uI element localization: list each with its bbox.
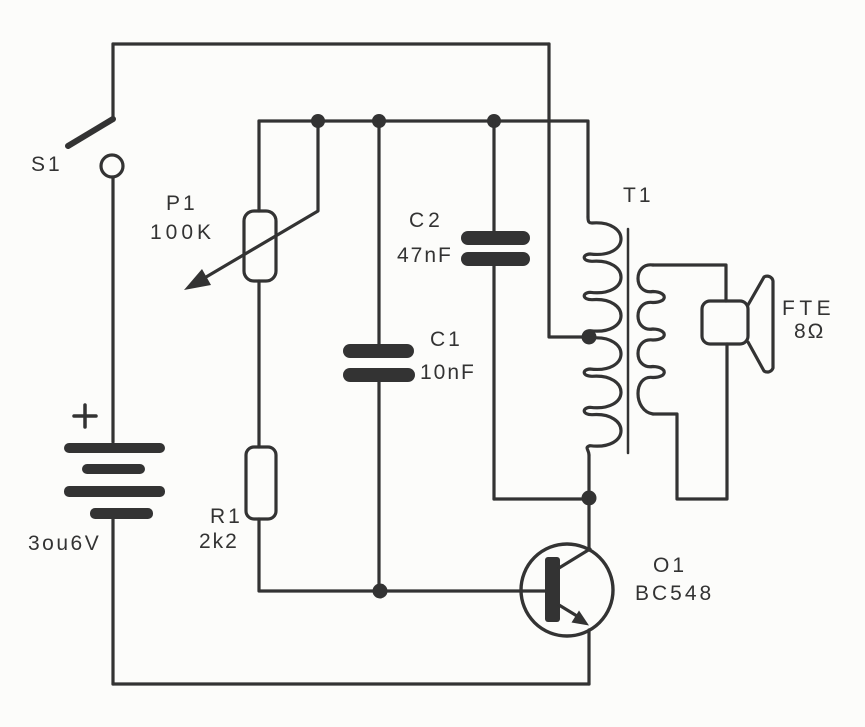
svg-text:BC548: BC548 — [635, 582, 714, 605]
capacitor C2 top lead — [492, 121, 495, 231]
potentiometer P1 wiper lead — [201, 121, 318, 280]
capacitor C1 top lead — [377, 121, 380, 344]
wire S1 to battery — [111, 177, 114, 442]
capacitor C1 bottom lead — [377, 382, 380, 592]
wire secondary bottom return — [653, 344, 727, 499]
capacitor C2 bottom lead — [492, 266, 495, 499]
node dot C2 top junction — [487, 114, 501, 128]
wire C2 to collector node — [494, 497, 589, 500]
transistor Q1 base bar — [545, 557, 560, 622]
potentiometer P1 body — [244, 211, 276, 281]
wire collector to node — [587, 498, 590, 550]
capacitor C2 plate 2 — [461, 252, 530, 266]
wire P1 to R1 — [257, 281, 260, 447]
transformer T1 core — [627, 229, 630, 453]
transistor Q1 collector lead — [559, 549, 590, 568]
node dot primary bottom collector junction — [582, 491, 597, 506]
transformer T1 primary winding — [584, 217, 621, 455]
battery B1 plate 2 short — [82, 464, 145, 474]
wire R1 to base — [259, 519, 545, 591]
svg-text:C1: C1 — [430, 328, 463, 351]
svg-text:T1: T1 — [623, 184, 654, 207]
wire emitter to bottom bus — [587, 630, 590, 684]
transistor Q1 emitter arrowhead — [572, 611, 590, 626]
capacitor C1 plate 1 — [343, 344, 414, 358]
wire battery to bottom bus — [111, 519, 114, 684]
node dot C1 base junction — [373, 584, 388, 599]
capacitor C2 plate 1 — [461, 231, 530, 245]
speaker FTE horn — [748, 276, 773, 372]
svg-text:C2: C2 — [409, 209, 444, 232]
capacitor C1 plate 2 — [343, 368, 415, 382]
node dot P1 wiper junction — [311, 114, 325, 128]
resistor R1 body — [246, 447, 276, 519]
wire top to center tap vertical — [549, 44, 582, 337]
switch S1 contact circle — [101, 155, 123, 177]
svg-text:8Ω: 8Ω — [794, 320, 825, 343]
battery B1 plus sign — [74, 405, 96, 427]
wire secondary top to speaker — [653, 265, 726, 301]
svg-text:S1: S1 — [31, 153, 63, 176]
transistor Q1 body circle — [521, 544, 613, 636]
battery B1 plate 3 long — [64, 486, 165, 497]
svg-text:47nF: 47nF — [397, 244, 453, 267]
node dot C1 top junction — [372, 114, 386, 128]
battery B1 plate 4 short — [90, 508, 153, 519]
potentiometer P1 wiper arrowhead — [184, 269, 211, 290]
battery B1 plate 1 long — [64, 443, 165, 453]
wire left vertical main (bus to P1) — [257, 121, 260, 211]
svg-text:100K: 100K — [150, 221, 215, 244]
svg-text:10nF: 10nF — [420, 361, 476, 384]
wire horizontal bus mid — [259, 119, 587, 122]
switch S1 blade — [68, 119, 113, 146]
transistor Q1 emitter lead — [559, 605, 577, 616]
wire primary bottom to collector node — [587, 455, 590, 498]
svg-text:O1: O1 — [653, 554, 687, 577]
wire top bus — [113, 42, 549, 45]
svg-text:3ou6V: 3ou6V — [28, 532, 101, 555]
svg-text:2k2: 2k2 — [199, 530, 239, 553]
node dot transformer center tap — [582, 330, 597, 345]
wire bus to primary top — [586, 121, 589, 217]
speaker FTE box — [702, 301, 748, 344]
wire S1 top lead — [111, 44, 114, 119]
svg-text:FTE: FTE — [782, 297, 835, 320]
svg-text:P1: P1 — [166, 192, 198, 215]
svg-text:R1: R1 — [210, 505, 243, 528]
transformer T1 secondary winding — [638, 265, 664, 414]
wire bottom bus — [113, 682, 589, 685]
